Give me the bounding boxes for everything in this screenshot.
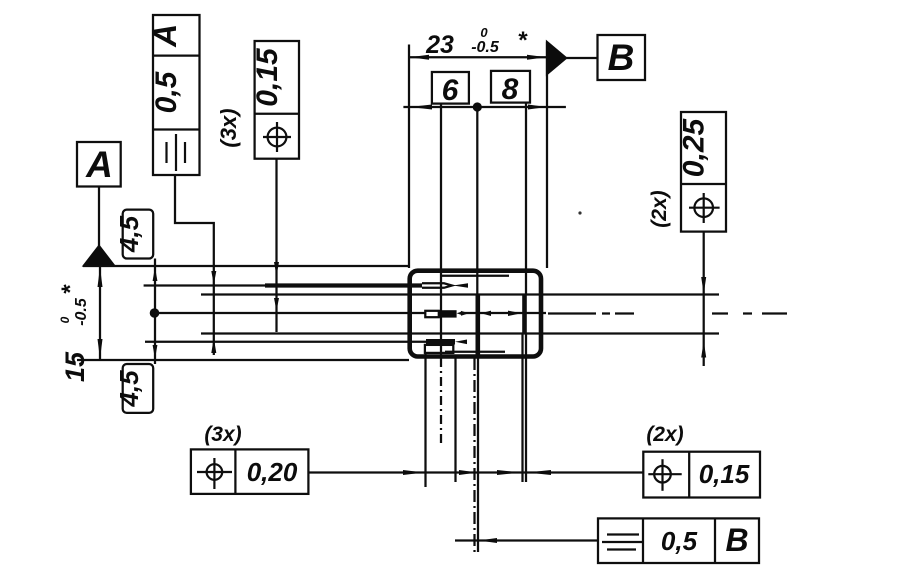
datum B arrow triangle [547,42,566,74]
svg-text:15: 15 [60,351,90,382]
position feature control frame 0,25 rotated [678,112,727,232]
leader from position frame 0,15 [275,159,277,332]
leader arrow at centre pair [479,538,498,543]
middle pin tip and arrow [457,312,462,316]
dim 8 arrow right [508,311,522,316]
position feature control frame 0,15 bottom [643,452,760,498]
leader from datum A box [98,187,100,250]
leader to datum B box [566,57,598,59]
23 left arrow [410,55,430,60]
svg-text:8: 8 [502,73,519,106]
part outline thick [410,271,541,357]
extension line x=155 with dot [154,259,156,365]
leader arrow down onto upper shaft line [701,277,706,294]
chain dimension line y=107 [403,106,566,108]
position feature control frame 0,20 [191,449,309,494]
top notch line [442,275,509,277]
scan speck [578,211,581,214]
svg-text:0: 0 [480,25,488,40]
inner wall right thick [522,295,527,334]
datum A filled triangle [84,246,114,266]
blob at surface crossing [274,262,279,276]
svg-text:23: 23 [425,31,454,59]
svg-text:4,5: 4,5 [114,215,144,253]
dimension 15 upper arrow [98,267,103,287]
dimension 15 lower arrow [98,339,103,359]
dimension 15 line [99,266,101,360]
datum frame A box [77,142,121,187]
bottom pin lower outline rect [425,345,453,353]
stepped leader from symmetry frame [175,175,214,355]
bottom chain dimension line y=472.5 [308,471,643,473]
top pin chamfered tip outline [422,283,452,288]
extension from box 8 [525,103,527,295]
cigar arrow 2 [459,470,477,475]
svg-text:0: 0 [58,316,72,323]
basic dimension box 6 [432,72,469,107]
lower shaft line [201,332,719,334]
cigar arrow 4 [527,470,551,475]
svg-text:0,15: 0,15 [699,459,750,489]
centre line left solid [155,312,425,314]
bottom notch line [445,351,505,353]
position symbol [268,128,287,147]
arrow up at top surface on x=155 [153,267,158,281]
arrow down at bottom surface on x=155 [153,345,158,359]
svg-text:A: A [85,144,113,185]
leader arrow at top pin line [211,271,216,285]
svg-text:0,5: 0,5 [661,526,698,556]
cigar arrow 3 [497,470,522,475]
leader arrow up onto lower shaft line [701,341,706,358]
centre line mid segment [460,312,546,314]
middle pin thick body [439,310,457,317]
extension from box 6 [440,104,442,358]
origin dot on y=107 [473,102,482,111]
bottom surface line [77,359,409,361]
inner wall left thick [475,295,480,356]
svg-text:B: B [725,522,748,558]
23 right extension line [546,42,548,268]
top pin thin line [144,284,265,286]
4,5 basic box bottom [114,364,153,413]
symmetry feature control frame 0,5 B [598,518,759,563]
svg-text:-0.5: -0.5 [73,297,90,326]
svg-text:-0.5: -0.5 [471,39,500,56]
top pin tip arrow [453,283,468,288]
top pin thick body [265,283,422,287]
top surface line [83,265,409,267]
centre line dash-dot right [548,312,787,314]
extension from origin dot [476,107,478,296]
svg-text:(3x): (3x) [216,108,241,147]
bottom pin thick body [426,339,455,345]
leader to symmetry frame bottom [455,539,598,541]
symmetry symbol (rotated): three lines [175,134,177,171]
upper shaft line [201,293,719,295]
svg-text:A: A [147,24,183,48]
svg-text:4,5: 4,5 [114,370,144,408]
svg-text:(2x): (2x) [646,423,683,446]
leader arrow at bottom pin line [211,338,216,353]
leader arrow onto centre line [274,298,279,311]
svg-text:6: 6 [442,74,459,107]
leader from position frame 0,25 [703,232,705,366]
svg-text:0,25: 0,25 [678,117,711,177]
symmetry symbol [607,533,639,535]
arrow right on y=107 [528,105,547,110]
dim 8 arrow left [481,311,491,316]
bottom pin thin line [145,341,426,343]
svg-text:B: B [608,37,635,78]
svg-text:0,15: 0,15 [251,47,284,107]
svg-text:(3x): (3x) [204,423,241,446]
4,5 basic box top [114,210,153,259]
cigar arrow 1 [403,470,424,475]
position feature control frame 0,15 rotated [251,41,299,159]
middle pin outline [425,311,439,317]
svg-text:0,20: 0,20 [247,457,298,487]
arrow left on y=107 [410,105,433,110]
datum frame B box [598,35,646,80]
symmetry feature control frame (0,5 A) rotated [147,15,200,175]
verticals below part [424,353,426,487]
svg-text:0,5: 0,5 [150,70,183,113]
basic dimension box 8 [491,71,530,106]
bottom pin tip arrow [455,340,467,345]
23 right arrow [527,55,547,60]
svg-text:(2x): (2x) [648,190,671,227]
dimension 23 line [409,56,547,58]
23 left extension line [408,45,410,269]
